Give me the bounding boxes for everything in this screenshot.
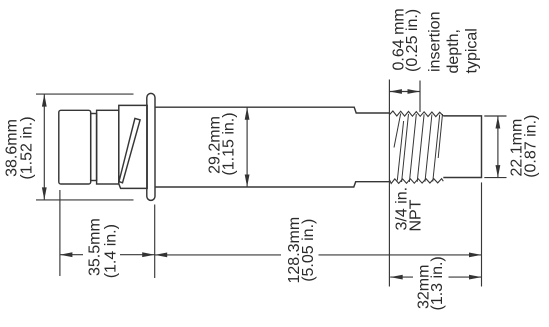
dim 38.6mm extension top [36,93,134,95]
arrow 0.64 left [389,89,402,94]
dim 32mm/128.3mm extension right [481,182,483,286]
dim 35.5mm line [60,254,155,256]
svg-text:insertion: insertion [427,12,444,72]
probe body top edge [155,107,389,113]
connector ring band [91,114,97,181]
connector body block [97,110,119,184]
arrow 32 right [469,275,482,280]
arrow 35.5 left [60,252,73,257]
svg-text:(1.15 in.): (1.15 in.) [221,112,238,175]
dim 32mm line [390,276,481,278]
svg-text:(1.4 in.): (1.4 in.) [103,224,120,278]
arrow 38.6 up [42,94,47,107]
dim 22.1mm extension top [484,115,506,117]
dim 29.2mm line [246,107,248,187]
arrowheads [42,89,500,279]
svg-text:depth,: depth, [445,29,462,73]
probe body bottom edge [155,182,389,187]
connector end cap [59,110,91,184]
thread bottom crest zigzag [389,179,443,184]
dim 22.1mm line [497,116,499,178]
svg-text:NPT: NPT [408,199,425,231]
arrow 29.2 down [245,175,250,188]
probe tip cylinder [443,116,481,178]
dim 35.5mm/128.3mm shared extension [154,205,156,279]
arrow 35.5 right [142,252,155,257]
dim 0.64mm extension right [419,81,421,113]
svg-text:(1.52 in.): (1.52 in.) [19,116,36,179]
dim 22.1mm extension bottom [484,177,506,179]
arrow 22.1 down [496,165,501,178]
dim 0.64mm line [389,91,420,93]
thread start vertical / extension line [388,80,390,287]
svg-text:(0.25 in.): (0.25 in.) [404,9,421,72]
svg-text:(0.87 in.): (0.87 in.) [523,115,540,178]
arrow 38.6 down [42,187,47,200]
arrow 22.1 up [496,116,501,129]
dim 38.6mm line [43,94,45,200]
thread helix lines [394,114,443,183]
arrow 128.3 right [469,253,482,258]
svg-text:typical: typical [464,28,481,73]
dim 38.6mm extension bottom [36,199,134,201]
lever housing [119,105,147,188]
thread top crest zigzag [389,111,443,117]
dim 35.5mm extension left [59,190,61,276]
arrow 29.2 up [245,107,250,120]
arrow 0.64 right [408,89,421,94]
mounting flange [147,93,155,200]
svg-text:(5.05 in.): (5.05 in.) [300,219,317,282]
release lever [119,118,140,182]
arrow 32 left [390,275,403,280]
svg-text:(1.3 in.): (1.3 in.) [429,256,446,310]
dim 128.3mm line [155,254,482,256]
dimension lines [36,81,507,287]
arrow 128.3 left [155,253,168,258]
svg-text:35.5mm: 35.5mm [87,218,104,276]
